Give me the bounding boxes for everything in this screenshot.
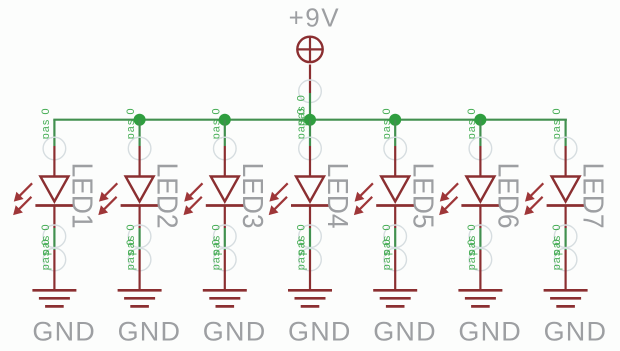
svg-text:LED4: LED4 xyxy=(322,163,354,229)
svg-text:GND: GND xyxy=(458,317,522,347)
pin LED2 cathode xyxy=(139,206,141,229)
pin circle LED3 cathode xyxy=(214,225,237,248)
wire LED3 cathode to GND pin xyxy=(224,228,226,250)
wire bus to LED3 anode xyxy=(224,120,226,146)
pin circle LED7 anode xyxy=(554,137,577,160)
LED3 emission arrows xyxy=(184,183,203,215)
svg-text:GND: GND xyxy=(373,317,437,347)
ground symbol GND4 xyxy=(288,290,332,306)
svg-text:LED3: LED3 xyxy=(237,163,269,229)
pin circle LED6 anode xyxy=(469,137,492,160)
svg-text:pas 0: pas 0 xyxy=(551,107,563,139)
pin GND5 xyxy=(394,250,396,290)
svg-text:pas 0: pas 0 xyxy=(125,107,137,139)
pin circle GND7 xyxy=(554,248,577,271)
pin circle LED1 anode xyxy=(43,137,66,160)
LED5 emission arrows xyxy=(354,183,373,215)
pin circle LED3 anode xyxy=(214,137,237,160)
wire bus to LED1 anode xyxy=(53,120,55,146)
pin circle LED4 anode xyxy=(299,137,322,160)
pin LED6 cathode xyxy=(479,206,481,229)
svg-text:LED2: LED2 xyxy=(151,163,183,229)
LED LED7 symbol (triangle + cathode bar) xyxy=(547,177,585,206)
ground symbol GND6 xyxy=(458,290,502,306)
pin circle +9V pin end xyxy=(299,80,322,103)
LED7 emission arrows xyxy=(524,183,543,215)
pin +9V (vertical red pin below circle) xyxy=(309,65,311,94)
junction dot node at LED5 branch xyxy=(389,114,401,126)
wire LED5 cathode to GND pin xyxy=(394,228,396,250)
svg-text:GND: GND xyxy=(203,317,267,347)
svg-text:LED6: LED6 xyxy=(492,163,524,229)
svg-text:pas 0: pas 0 xyxy=(466,238,478,270)
LED6 emission arrows xyxy=(439,183,458,215)
svg-text:GND: GND xyxy=(32,317,96,347)
pin circle LED5 cathode xyxy=(384,225,407,248)
ground symbol GND3 xyxy=(203,290,247,306)
wire bus to LED6 anode xyxy=(479,120,481,146)
pin circle LED7 cathode xyxy=(554,225,577,248)
svg-text:LED5: LED5 xyxy=(407,163,439,229)
junction dot node at LED2 branch xyxy=(134,114,146,126)
pin LED7 anode xyxy=(564,146,566,177)
svg-text:pas 0: pas 0 xyxy=(551,238,563,270)
wire LED7 cathode to GND pin xyxy=(564,228,566,250)
pin LED3 cathode xyxy=(224,206,226,229)
pin LED3 anode xyxy=(224,146,226,177)
svg-text:pas 0: pas 0 xyxy=(296,107,308,139)
LED1 emission arrows xyxy=(13,183,32,215)
svg-text:GND: GND xyxy=(288,317,352,347)
pin LED4 cathode xyxy=(309,206,311,229)
svg-text:pas 0: pas 0 xyxy=(210,107,222,139)
ground symbol GND1 xyxy=(32,290,76,306)
junction dot node at LED6 branch xyxy=(474,114,486,126)
junction dot node at LED4 branch xyxy=(304,114,316,126)
svg-text:pas 0: pas 0 xyxy=(210,238,222,270)
junction dot node at LED3 branch xyxy=(219,114,231,126)
pin GND6 xyxy=(479,250,481,290)
pin GND1 xyxy=(53,250,55,290)
wire bus to LED2 anode xyxy=(139,120,141,146)
wire LED1 cathode to GND pin xyxy=(53,228,55,250)
svg-text:pas 0: pas 0 xyxy=(40,238,52,270)
LED LED3 symbol (triangle + cathode bar) xyxy=(206,177,244,206)
pin circle LED5 anode xyxy=(384,137,407,160)
wire LED4 cathode to GND pin xyxy=(309,228,311,250)
svg-text:pas 0: pas 0 xyxy=(40,107,52,139)
power supply +9V symbol U$1 xyxy=(297,37,322,62)
LED2 emission arrows xyxy=(98,183,117,215)
pin circle LED2 cathode xyxy=(128,225,151,248)
wire bus to LED4 anode xyxy=(309,120,311,146)
LED LED6 symbol (triangle + cathode bar) xyxy=(461,177,499,206)
pin GND4 xyxy=(309,250,311,290)
svg-text:pas 0: pas 0 xyxy=(466,107,478,139)
pin LED1 anode xyxy=(53,146,55,177)
pin circle GND2 xyxy=(128,248,151,271)
ground symbol GND5 xyxy=(373,290,417,306)
LED LED5 symbol (triangle + cathode bar) xyxy=(376,177,414,206)
pin circle GND3 xyxy=(214,248,237,271)
svg-text:pas 0: pas 0 xyxy=(381,238,393,270)
wire +9V pin to bus xyxy=(309,93,311,120)
pin circle GND5 xyxy=(384,248,407,271)
pin GND3 xyxy=(224,250,226,290)
pin GND7 xyxy=(564,250,566,290)
pin LED6 anode xyxy=(479,146,481,177)
wire LED2 cathode to GND pin xyxy=(139,228,141,250)
ground symbol GND2 xyxy=(118,290,162,306)
svg-text:pas 0: pas 0 xyxy=(125,238,137,270)
svg-text:GND: GND xyxy=(118,317,182,347)
wire bus to LED5 anode xyxy=(394,120,396,146)
svg-text:+9V: +9V xyxy=(289,3,341,33)
LED LED4 symbol (triangle + cathode bar) xyxy=(291,177,329,206)
svg-text:pas 0: pas 0 xyxy=(296,238,308,270)
svg-text:GND: GND xyxy=(544,317,608,347)
wire +9V bus (horizontal net) xyxy=(54,119,565,121)
pin LED1 cathode xyxy=(53,206,55,229)
pin circle LED6 cathode xyxy=(469,225,492,248)
pin LED5 cathode xyxy=(394,206,396,229)
svg-text:pas 0: pas 0 xyxy=(381,107,393,139)
LED LED1 symbol (triangle + cathode bar) xyxy=(35,177,73,206)
LED LED2 symbol (triangle + cathode bar) xyxy=(121,177,159,206)
pin LED2 anode xyxy=(139,146,141,177)
pin LED7 cathode xyxy=(564,206,566,229)
pin GND2 xyxy=(139,250,141,290)
pin circle LED2 anode xyxy=(128,137,151,160)
pin circle GND1 xyxy=(43,248,66,271)
svg-text:LED1: LED1 xyxy=(66,163,98,229)
pin LED4 anode xyxy=(309,146,311,177)
pin circle GND4 xyxy=(299,248,322,271)
pin LED5 anode xyxy=(394,146,396,177)
pin circle LED1 cathode xyxy=(43,225,66,248)
ground symbol GND7 xyxy=(544,290,588,306)
svg-text:LED7: LED7 xyxy=(577,163,609,229)
wire bus to LED7 anode xyxy=(564,120,566,146)
wire LED6 cathode to GND pin xyxy=(479,228,481,250)
LED4 emission arrows xyxy=(269,183,288,215)
pin circle LED4 cathode xyxy=(299,225,322,248)
pin circle GND6 xyxy=(469,248,492,271)
